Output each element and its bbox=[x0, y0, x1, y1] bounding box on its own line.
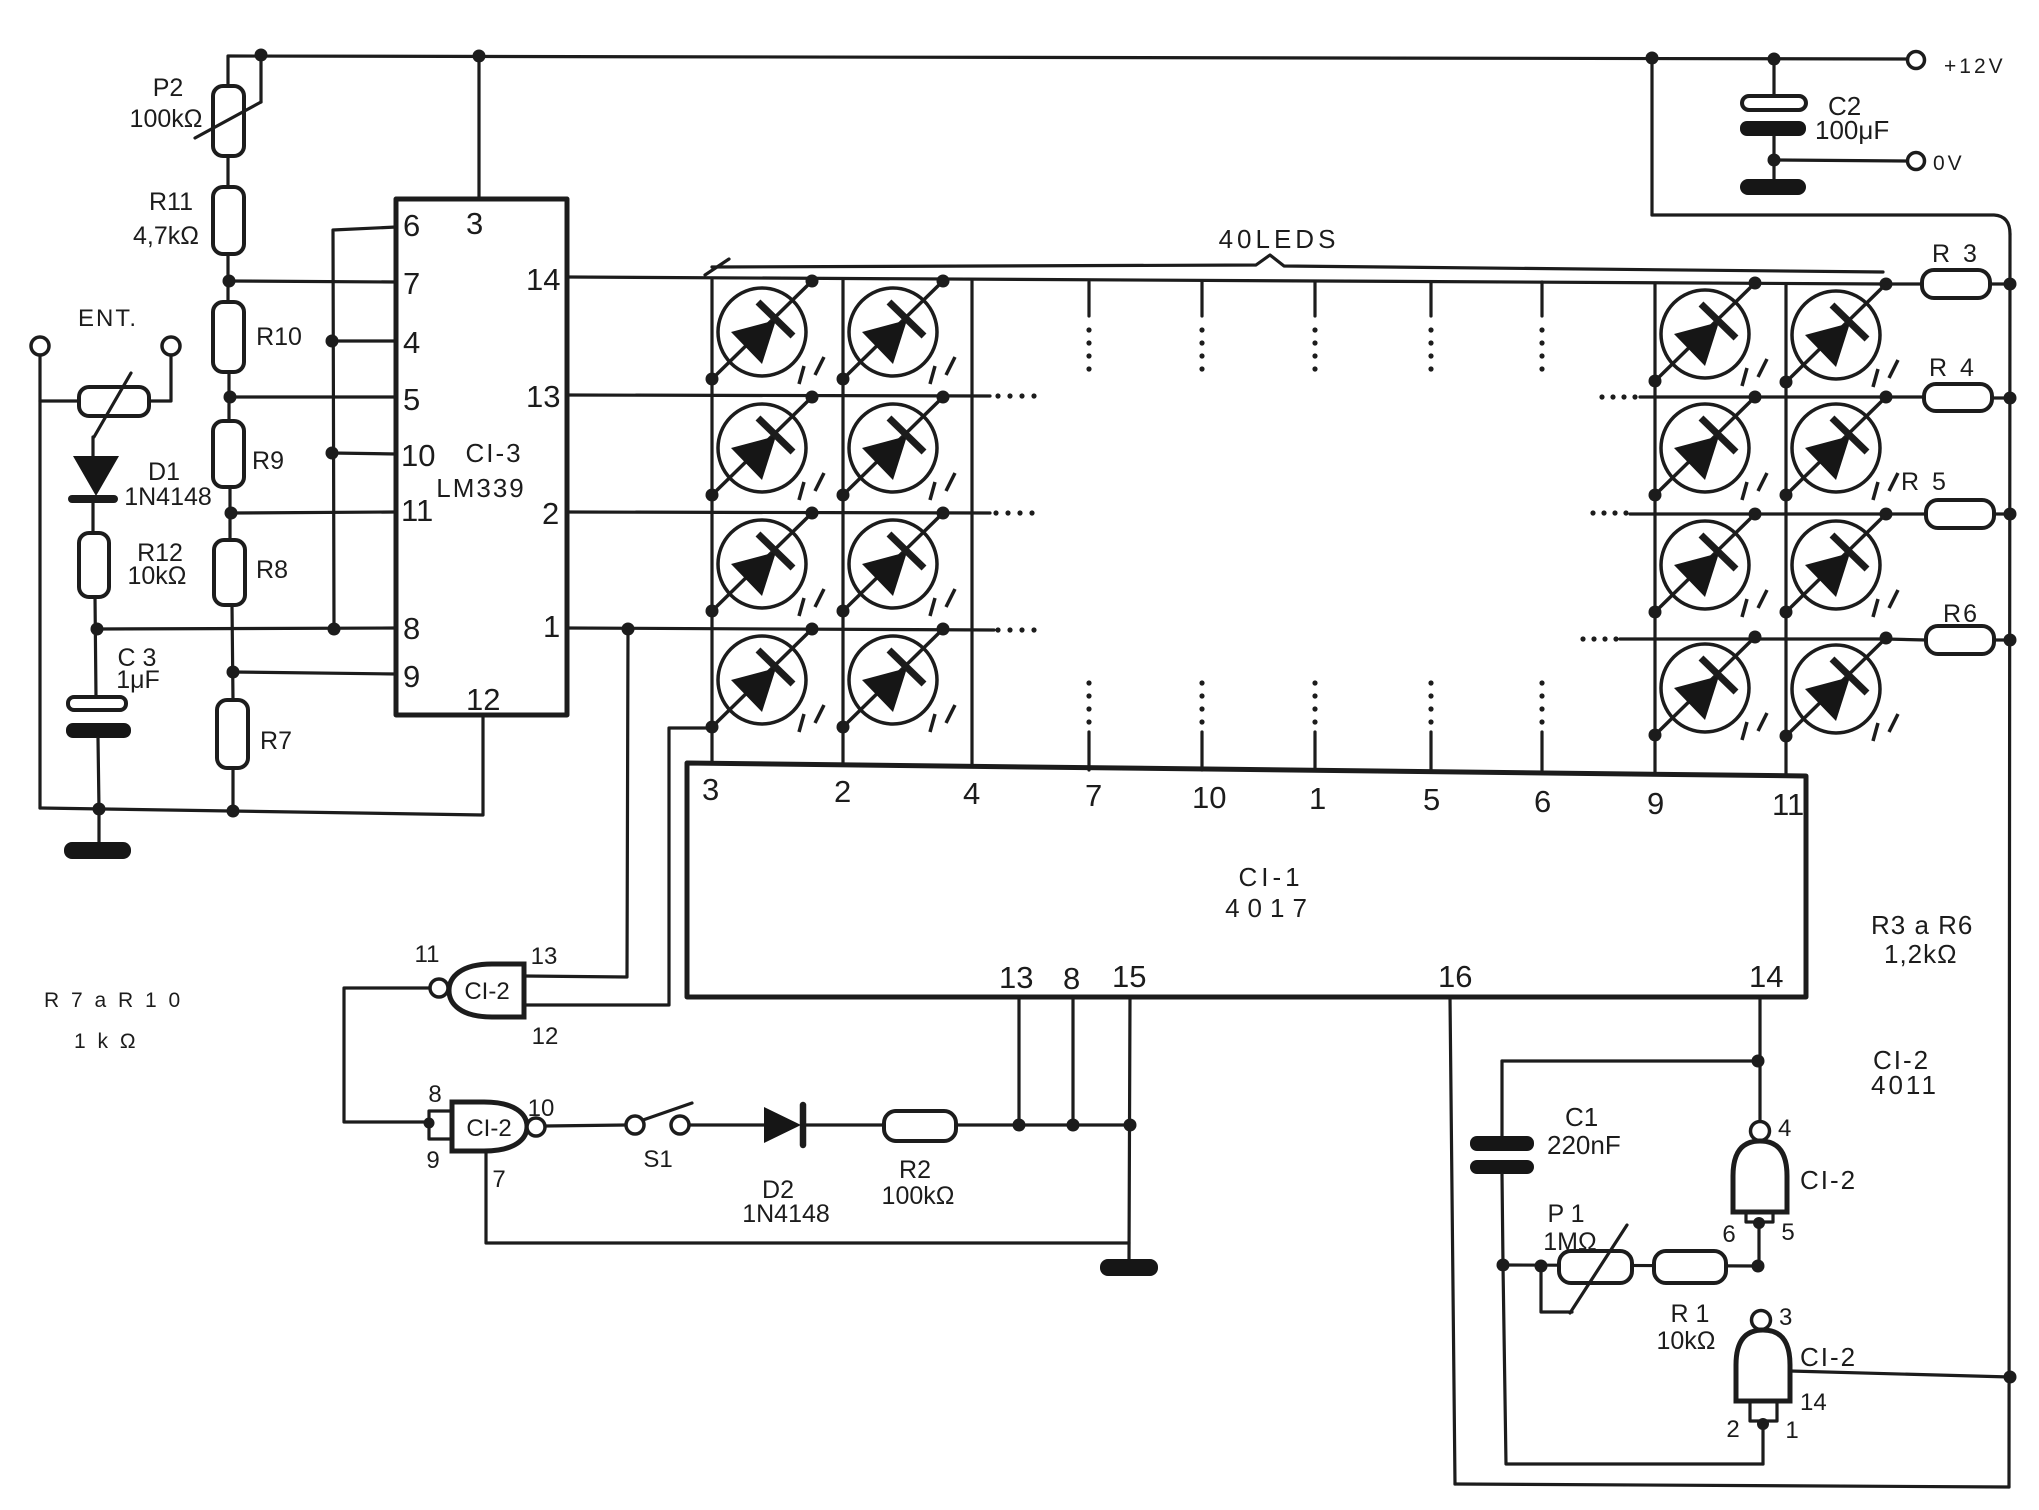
svg-text:ENT.: ENT. bbox=[78, 305, 138, 332]
svg-text:40LEDS: 40LEDS bbox=[1219, 224, 1340, 254]
terminal 0V bbox=[1908, 153, 1925, 170]
svg-text:14: 14 bbox=[1749, 959, 1783, 994]
svg-text:9: 9 bbox=[426, 1147, 439, 1174]
resistor R1 10k bbox=[1654, 1251, 1726, 1283]
switch S1 bbox=[626, 1116, 644, 1134]
NAND gate CI-2c (pins 6,5 in / 4 out) oscillator bbox=[1751, 1122, 1770, 1141]
wire NAND CI-2a input12 to column pin3 bbox=[524, 728, 712, 1005]
LED row2 col10 bbox=[1780, 391, 1899, 502]
wire ENT right to pot bbox=[149, 355, 171, 401]
svg-text:CI-1: CI-1 bbox=[1238, 862, 1303, 892]
svg-text:5: 5 bbox=[1423, 782, 1440, 817]
ground symbol below C3 bbox=[97, 809, 100, 843]
wire pin 15 stub down to clock line and ground bbox=[1129, 997, 1130, 1260]
LED row3 col1 bbox=[706, 507, 825, 618]
resistor R12 10k bbox=[79, 533, 109, 597]
svg-text:1μF: 1μF bbox=[116, 666, 160, 694]
svg-text:1N4148: 1N4148 bbox=[124, 483, 212, 511]
resistor R6 bbox=[1886, 639, 1926, 640]
node top rail junction at CI-3 pin 3 bbox=[473, 50, 486, 63]
dotted row continuations bbox=[995, 393, 1000, 398]
wire R9 to R8 bbox=[228, 487, 231, 540]
svg-text:4011: 4011 bbox=[1871, 1070, 1939, 1100]
wire LED row 1 (CI-3 pin 14) bbox=[567, 277, 1886, 284]
wire pin 8 stub bbox=[1071, 997, 1074, 1125]
node row4 to NAND CI-2a input 13 bbox=[622, 623, 635, 636]
ground plate below C2 bbox=[1740, 179, 1806, 195]
NAND gate CI-2d (pins 1,2 in / 3 out) oscillator bbox=[1752, 1311, 1771, 1330]
svg-text:R7: R7 bbox=[260, 727, 292, 755]
LED row1 col1 bbox=[706, 275, 825, 386]
wire pin 13 stub bbox=[1017, 997, 1020, 1125]
LED row4 col1 bbox=[706, 623, 825, 734]
wire pin 7 bbox=[229, 281, 396, 282]
potentiometer P1 1M bbox=[1559, 1251, 1632, 1283]
wire pin 10 bbox=[332, 453, 396, 454]
wire S1 to D2 bbox=[689, 1123, 764, 1126]
node top rail junction at C2 branch bbox=[1646, 52, 1659, 65]
svg-text:S1: S1 bbox=[643, 1146, 672, 1173]
capacitor C2 100uF bbox=[1772, 59, 1775, 96]
svg-text:R10: R10 bbox=[256, 323, 302, 351]
svg-text:D1: D1 bbox=[148, 458, 180, 486]
svg-text:10kΩ: 10kΩ bbox=[128, 562, 187, 590]
wire bottom-left ground rail bbox=[40, 715, 483, 815]
svg-text:1: 1 bbox=[1785, 1417, 1798, 1444]
wire C3 to bottom rail bbox=[98, 738, 99, 809]
LED row4 col2 bbox=[837, 623, 956, 734]
svg-text:3: 3 bbox=[1779, 1304, 1792, 1331]
wire LED row 3 right segment bbox=[1630, 512, 1890, 515]
wire top-right rail to right vertical bbox=[1652, 215, 2010, 234]
wire ENT left down bbox=[38, 355, 41, 808]
node ladder tap pin5 bbox=[224, 391, 237, 404]
svg-text:3: 3 bbox=[466, 206, 483, 241]
terminal ENT left bbox=[31, 337, 49, 355]
svg-text:R9: R9 bbox=[252, 447, 284, 475]
svg-text:7: 7 bbox=[1085, 778, 1102, 813]
diode D2 1N4148 bbox=[764, 1107, 801, 1143]
IC CI-1 4017 bbox=[687, 763, 1806, 997]
resistor R8 bbox=[214, 540, 245, 605]
wire +12V branch down to 0V-side rail bbox=[1650, 58, 1653, 215]
svg-text:1 k Ω: 1 k Ω bbox=[74, 1030, 139, 1053]
svg-text:9: 9 bbox=[403, 659, 420, 694]
svg-text:P 1: P 1 bbox=[1547, 1200, 1584, 1228]
IC CI-3 LM339 bbox=[396, 199, 567, 715]
resistor R9 bbox=[213, 421, 244, 487]
wire gate b pin 7 down and right to ground node bbox=[486, 1151, 1129, 1243]
svg-text:100kΩ: 100kΩ bbox=[130, 105, 203, 133]
svg-text:11: 11 bbox=[1772, 787, 1804, 822]
svg-text:P2: P2 bbox=[153, 74, 184, 102]
ground symbol below pin 15 bbox=[1100, 1259, 1158, 1276]
wire LED row 4 (CI-3 pin 1) left segment bbox=[567, 628, 994, 630]
LED row1 col2 bbox=[837, 275, 956, 386]
LED row1 col9 bbox=[1649, 277, 1768, 388]
svg-text:100kΩ: 100kΩ bbox=[882, 1182, 955, 1210]
svg-text:4,7kΩ: 4,7kΩ bbox=[133, 222, 199, 250]
svg-text:R2: R2 bbox=[899, 1156, 931, 1184]
input level potentiometer bbox=[79, 387, 149, 416]
svg-text:6: 6 bbox=[403, 208, 420, 243]
svg-text:6: 6 bbox=[1534, 784, 1551, 819]
wire clock line from gate CI-2c output to CI-1 pin 14 and C1 bbox=[1502, 1059, 1758, 1062]
svg-text:10: 10 bbox=[528, 1095, 555, 1122]
resistor R2 100k bbox=[884, 1111, 956, 1141]
wire gate a output feedback to gate b inputs bbox=[344, 988, 430, 1122]
svg-text:3: 3 bbox=[702, 772, 719, 807]
svg-text:5: 5 bbox=[403, 382, 420, 417]
svg-text:4: 4 bbox=[403, 325, 420, 360]
terminal ENT right bbox=[162, 337, 180, 355]
svg-text:6: 6 bbox=[1722, 1221, 1735, 1248]
svg-text:14: 14 bbox=[526, 262, 560, 297]
wire pin 4 bbox=[332, 339, 396, 342]
svg-text:10: 10 bbox=[1192, 780, 1226, 815]
diode D1 1N4148 bbox=[73, 456, 119, 496]
svg-text:CI-2: CI-2 bbox=[1800, 1165, 1857, 1195]
svg-text:CI-2: CI-2 bbox=[466, 1115, 511, 1142]
svg-text:R 3: R 3 bbox=[1932, 240, 1980, 268]
svg-text:8: 8 bbox=[403, 611, 420, 646]
capacitor C1 220nF bbox=[1470, 1136, 1534, 1151]
svg-text:0V: 0V bbox=[1933, 152, 1965, 175]
svg-text:13: 13 bbox=[526, 379, 560, 414]
svg-text:4: 4 bbox=[963, 776, 980, 811]
wire R12 to C3 bbox=[95, 597, 96, 697]
wire pin 11 bbox=[231, 512, 396, 513]
svg-text:11: 11 bbox=[415, 941, 440, 968]
resistor R5 bbox=[1890, 512, 1926, 515]
svg-text:1N4148: 1N4148 bbox=[742, 1200, 830, 1228]
LED row3 col10 bbox=[1780, 508, 1899, 619]
wire LED column pin 3 bbox=[710, 280, 713, 763]
svg-text:4017: 4017 bbox=[1225, 893, 1315, 923]
resistor R4 bbox=[1884, 395, 1924, 398]
wire R7 to bottom rail bbox=[231, 768, 234, 811]
LED row2 col9 bbox=[1649, 391, 1768, 502]
svg-text:R11: R11 bbox=[149, 188, 193, 216]
NAND gate CI-2a (pins 13,12 in / 11 out) bbox=[449, 964, 524, 1017]
hidden LED columns (pins 7,10,1,5,6) stubs and dots bbox=[1087, 282, 1090, 316]
resistor R10 bbox=[213, 302, 244, 372]
svg-text:R3 a R6: R3 a R6 bbox=[1871, 910, 1973, 940]
svg-text:5: 5 bbox=[1781, 1219, 1794, 1246]
wire pin 16 down bbox=[1450, 997, 1455, 1484]
svg-text:CI-3: CI-3 bbox=[465, 438, 522, 468]
node ladder tap pin9 bbox=[227, 666, 240, 679]
svg-text:14: 14 bbox=[1800, 1389, 1827, 1416]
svg-text:2: 2 bbox=[542, 496, 559, 531]
svg-text:2: 2 bbox=[834, 774, 851, 809]
brace 40 LEDS bbox=[712, 255, 1883, 272]
svg-text:9: 9 bbox=[1647, 786, 1664, 821]
svg-text:C1: C1 bbox=[1565, 1102, 1598, 1132]
svg-text:15: 15 bbox=[1112, 959, 1146, 994]
svg-text:8: 8 bbox=[428, 1081, 441, 1108]
node ladder tap pin7 bbox=[223, 275, 236, 288]
svg-text:7: 7 bbox=[403, 266, 420, 301]
wire bottom outer to +12V rail bbox=[1455, 1484, 2009, 1487]
wire gate CI-2d pin 14 (VDD) to +12V rail bbox=[1790, 1371, 2010, 1377]
wire LED column pin 9 bbox=[1653, 283, 1656, 774]
potentiometer P2 100k bbox=[213, 86, 244, 156]
svg-text:R6: R6 bbox=[1943, 600, 1979, 628]
wire LED row 2 (CI-3 pin 13) left segment bbox=[567, 395, 990, 396]
LED row4 col10 bbox=[1780, 632, 1899, 743]
wire LED column pin 4 bbox=[970, 281, 973, 766]
wire gate b output to S1 bbox=[545, 1125, 626, 1126]
svg-text:1: 1 bbox=[1309, 781, 1326, 816]
wire pin 5 bbox=[230, 395, 396, 398]
LED row2 col1 bbox=[706, 391, 825, 502]
wire oscillator feedback bottom line bbox=[1503, 1265, 1763, 1464]
svg-text:10kΩ: 10kΩ bbox=[1657, 1327, 1716, 1355]
svg-text:R 5: R 5 bbox=[1901, 468, 1949, 496]
terminal +12V bbox=[1908, 52, 1925, 69]
wire gate a input 13 to CI-3 pin1 node bbox=[524, 629, 628, 977]
wire pin 8 line from detector bbox=[97, 628, 396, 629]
wire LED row 2 right segment bbox=[1640, 395, 1884, 398]
wire LED column pin 2 bbox=[841, 280, 844, 764]
wire +12V top rail bbox=[228, 56, 1907, 86]
wire R10 to R9 bbox=[227, 372, 230, 421]
node top rail junction at P2 wiper bbox=[255, 49, 268, 62]
svg-text:10: 10 bbox=[401, 438, 435, 473]
resistor R3 bbox=[1886, 282, 1922, 285]
svg-text:+12V: +12V bbox=[1944, 55, 2006, 78]
wire LED row 3 (CI-3 pin 2) left segment bbox=[567, 512, 990, 513]
resistor R11 4.7k bbox=[213, 187, 244, 254]
svg-text:12: 12 bbox=[466, 682, 500, 717]
svg-text:16: 16 bbox=[1438, 959, 1472, 994]
wire P1/R1 timing line bbox=[1503, 1265, 1758, 1266]
svg-text:7: 7 bbox=[492, 1166, 505, 1193]
svg-text:100μF: 100μF bbox=[1815, 115, 1889, 145]
svg-text:13: 13 bbox=[999, 960, 1033, 995]
wire LED row 4 right segment bbox=[1620, 637, 1886, 640]
svg-text:CI-2: CI-2 bbox=[464, 978, 509, 1005]
svg-text:R 1: R 1 bbox=[1671, 1300, 1710, 1328]
svg-text:LM339: LM339 bbox=[436, 473, 526, 503]
LED row3 col2 bbox=[837, 507, 956, 618]
wire R11 to R10 bbox=[226, 254, 229, 302]
wire R8 to R7 bbox=[232, 605, 233, 700]
svg-text:4: 4 bbox=[1778, 1115, 1791, 1142]
NAND gate CI-2b (pins 8,9 in / 10 out) bbox=[429, 1111, 452, 1139]
wire pin 9 bbox=[233, 672, 396, 674]
svg-text:13: 13 bbox=[531, 943, 558, 970]
wire P2 to R11 bbox=[226, 156, 229, 187]
svg-text:1MΩ: 1MΩ bbox=[1543, 1228, 1596, 1256]
wire right-hand +12V rail bbox=[2009, 234, 2010, 1487]
svg-text:8: 8 bbox=[1063, 961, 1080, 996]
svg-text:1,2kΩ: 1,2kΩ bbox=[1884, 939, 1958, 969]
node ladder tap pin11 bbox=[225, 507, 238, 520]
LED row1 col10 bbox=[1780, 278, 1899, 389]
wire comparator input bus bbox=[333, 227, 396, 629]
wire R2 to CI-1 pins 13/8/15 bbox=[956, 1123, 1130, 1126]
wire 0V tap bbox=[1774, 160, 1907, 161]
svg-text:1: 1 bbox=[543, 609, 560, 644]
wire pin 14 down to oscillator bbox=[1758, 997, 1761, 1121]
LED row4 col9 bbox=[1649, 631, 1768, 742]
wire LED column pin 11 bbox=[1784, 284, 1787, 776]
svg-text:CI-2: CI-2 bbox=[1800, 1342, 1857, 1372]
resistor R7 bbox=[217, 700, 248, 768]
node top rail junction at C2 bbox=[1768, 53, 1781, 66]
svg-text:2: 2 bbox=[1726, 1416, 1739, 1443]
LED row2 col2 bbox=[837, 391, 956, 502]
svg-text:R8: R8 bbox=[256, 556, 288, 584]
svg-text:11: 11 bbox=[401, 493, 433, 528]
svg-text:R 7 a R 1 0: R 7 a R 1 0 bbox=[44, 989, 183, 1012]
LED row3 col9 bbox=[1649, 508, 1768, 619]
svg-text:220nF: 220nF bbox=[1547, 1130, 1621, 1160]
svg-text:R 4: R 4 bbox=[1929, 354, 1977, 382]
svg-text:12: 12 bbox=[532, 1023, 559, 1050]
